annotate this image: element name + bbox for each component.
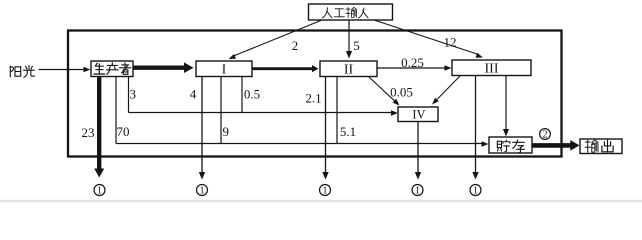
svg-text:5: 5 bbox=[353, 38, 360, 53]
svg-text:23: 23 bbox=[82, 125, 95, 140]
box I bbox=[196, 61, 252, 78]
wire II to III, value 0.25 bbox=[377, 55, 452, 71]
node circled 1 under IV bbox=[412, 185, 423, 197]
wire 生产者 down, value 70 bbox=[116, 77, 130, 144]
svg-text:0.05: 0.05 bbox=[390, 85, 413, 100]
svg-text:II: II bbox=[344, 63, 354, 78]
wire 人工输入 to III, value 12 bbox=[374, 20, 483, 58]
wire II down, value 5.1 bbox=[337, 77, 356, 144]
node 阳光 (sunlight) label bbox=[10, 66, 34, 78]
thick wire 生产者 to I bbox=[133, 62, 194, 73]
node circled 1 under I bbox=[197, 185, 208, 197]
svg-text:9: 9 bbox=[223, 124, 230, 139]
svg-text:5.1: 5.1 bbox=[340, 124, 356, 139]
svg-text:1: 1 bbox=[323, 186, 328, 197]
wire II respiration down, value 2.1 bbox=[305, 77, 328, 180]
wire 人工输入 to II, value 5 bbox=[346, 20, 360, 59]
svg-text:3: 3 bbox=[130, 87, 137, 102]
wire III down to 贮存 bbox=[503, 76, 509, 137]
svg-text:1: 1 bbox=[97, 186, 102, 197]
svg-text:2.1: 2.1 bbox=[305, 91, 321, 106]
box 输出 (output) bbox=[580, 139, 622, 154]
svg-text:IV: IV bbox=[412, 108, 425, 122]
svg-text:12: 12 bbox=[444, 35, 457, 50]
svg-text:4: 4 bbox=[190, 87, 197, 102]
node circled 1 under II bbox=[320, 185, 331, 197]
box III bbox=[452, 60, 531, 77]
wire III respiration down bbox=[472, 76, 478, 180]
box II bbox=[320, 61, 377, 78]
wire 人工输入 to I, value 2 bbox=[229, 20, 323, 59]
wire collector to IV arrow bbox=[129, 110, 399, 116]
svg-text:1: 1 bbox=[415, 186, 420, 197]
thick wire 生产者 respiration down, value 23 bbox=[82, 77, 105, 178]
wire I respiration down, value 4 bbox=[190, 77, 205, 180]
svg-text:2: 2 bbox=[292, 38, 299, 53]
system boundary box bbox=[68, 31, 562, 157]
svg-text:70: 70 bbox=[117, 124, 130, 139]
svg-text:I: I bbox=[222, 63, 227, 78]
svg-text:0.5: 0.5 bbox=[244, 87, 260, 102]
wire collector to 贮存 arrow bbox=[116, 141, 489, 147]
wire I down, value 0.5 bbox=[242, 77, 260, 113]
svg-text:2: 2 bbox=[543, 130, 548, 141]
box 生产者 (producers) bbox=[91, 61, 133, 77]
node circled 1 under 生产者 bbox=[94, 185, 105, 197]
wire 生产者 down, value 3 bbox=[129, 77, 137, 113]
node circled 2 above output arrow bbox=[540, 129, 551, 141]
wire III to IV diagonal bbox=[432, 76, 460, 105]
wire I down, value 9 bbox=[221, 77, 229, 144]
svg-text:1: 1 bbox=[200, 186, 205, 197]
svg-text:0.25: 0.25 bbox=[401, 55, 424, 70]
svg-text:III: III bbox=[485, 62, 499, 77]
box 贮存 (storage) bbox=[489, 137, 532, 153]
node circled 1 under III bbox=[470, 185, 481, 197]
wire IV respiration down bbox=[415, 122, 421, 180]
box 人工输入 (artificial input) bbox=[309, 4, 393, 20]
thick wire I to II bbox=[252, 65, 319, 72]
thick wire 贮存 to 输出 bbox=[532, 140, 580, 151]
wire 阳光 to 生产者 arrow bbox=[39, 67, 91, 73]
wire II to IV diagonal, value 0.05 bbox=[369, 77, 413, 106]
box IV bbox=[398, 107, 438, 122]
svg-text:1: 1 bbox=[473, 186, 478, 197]
